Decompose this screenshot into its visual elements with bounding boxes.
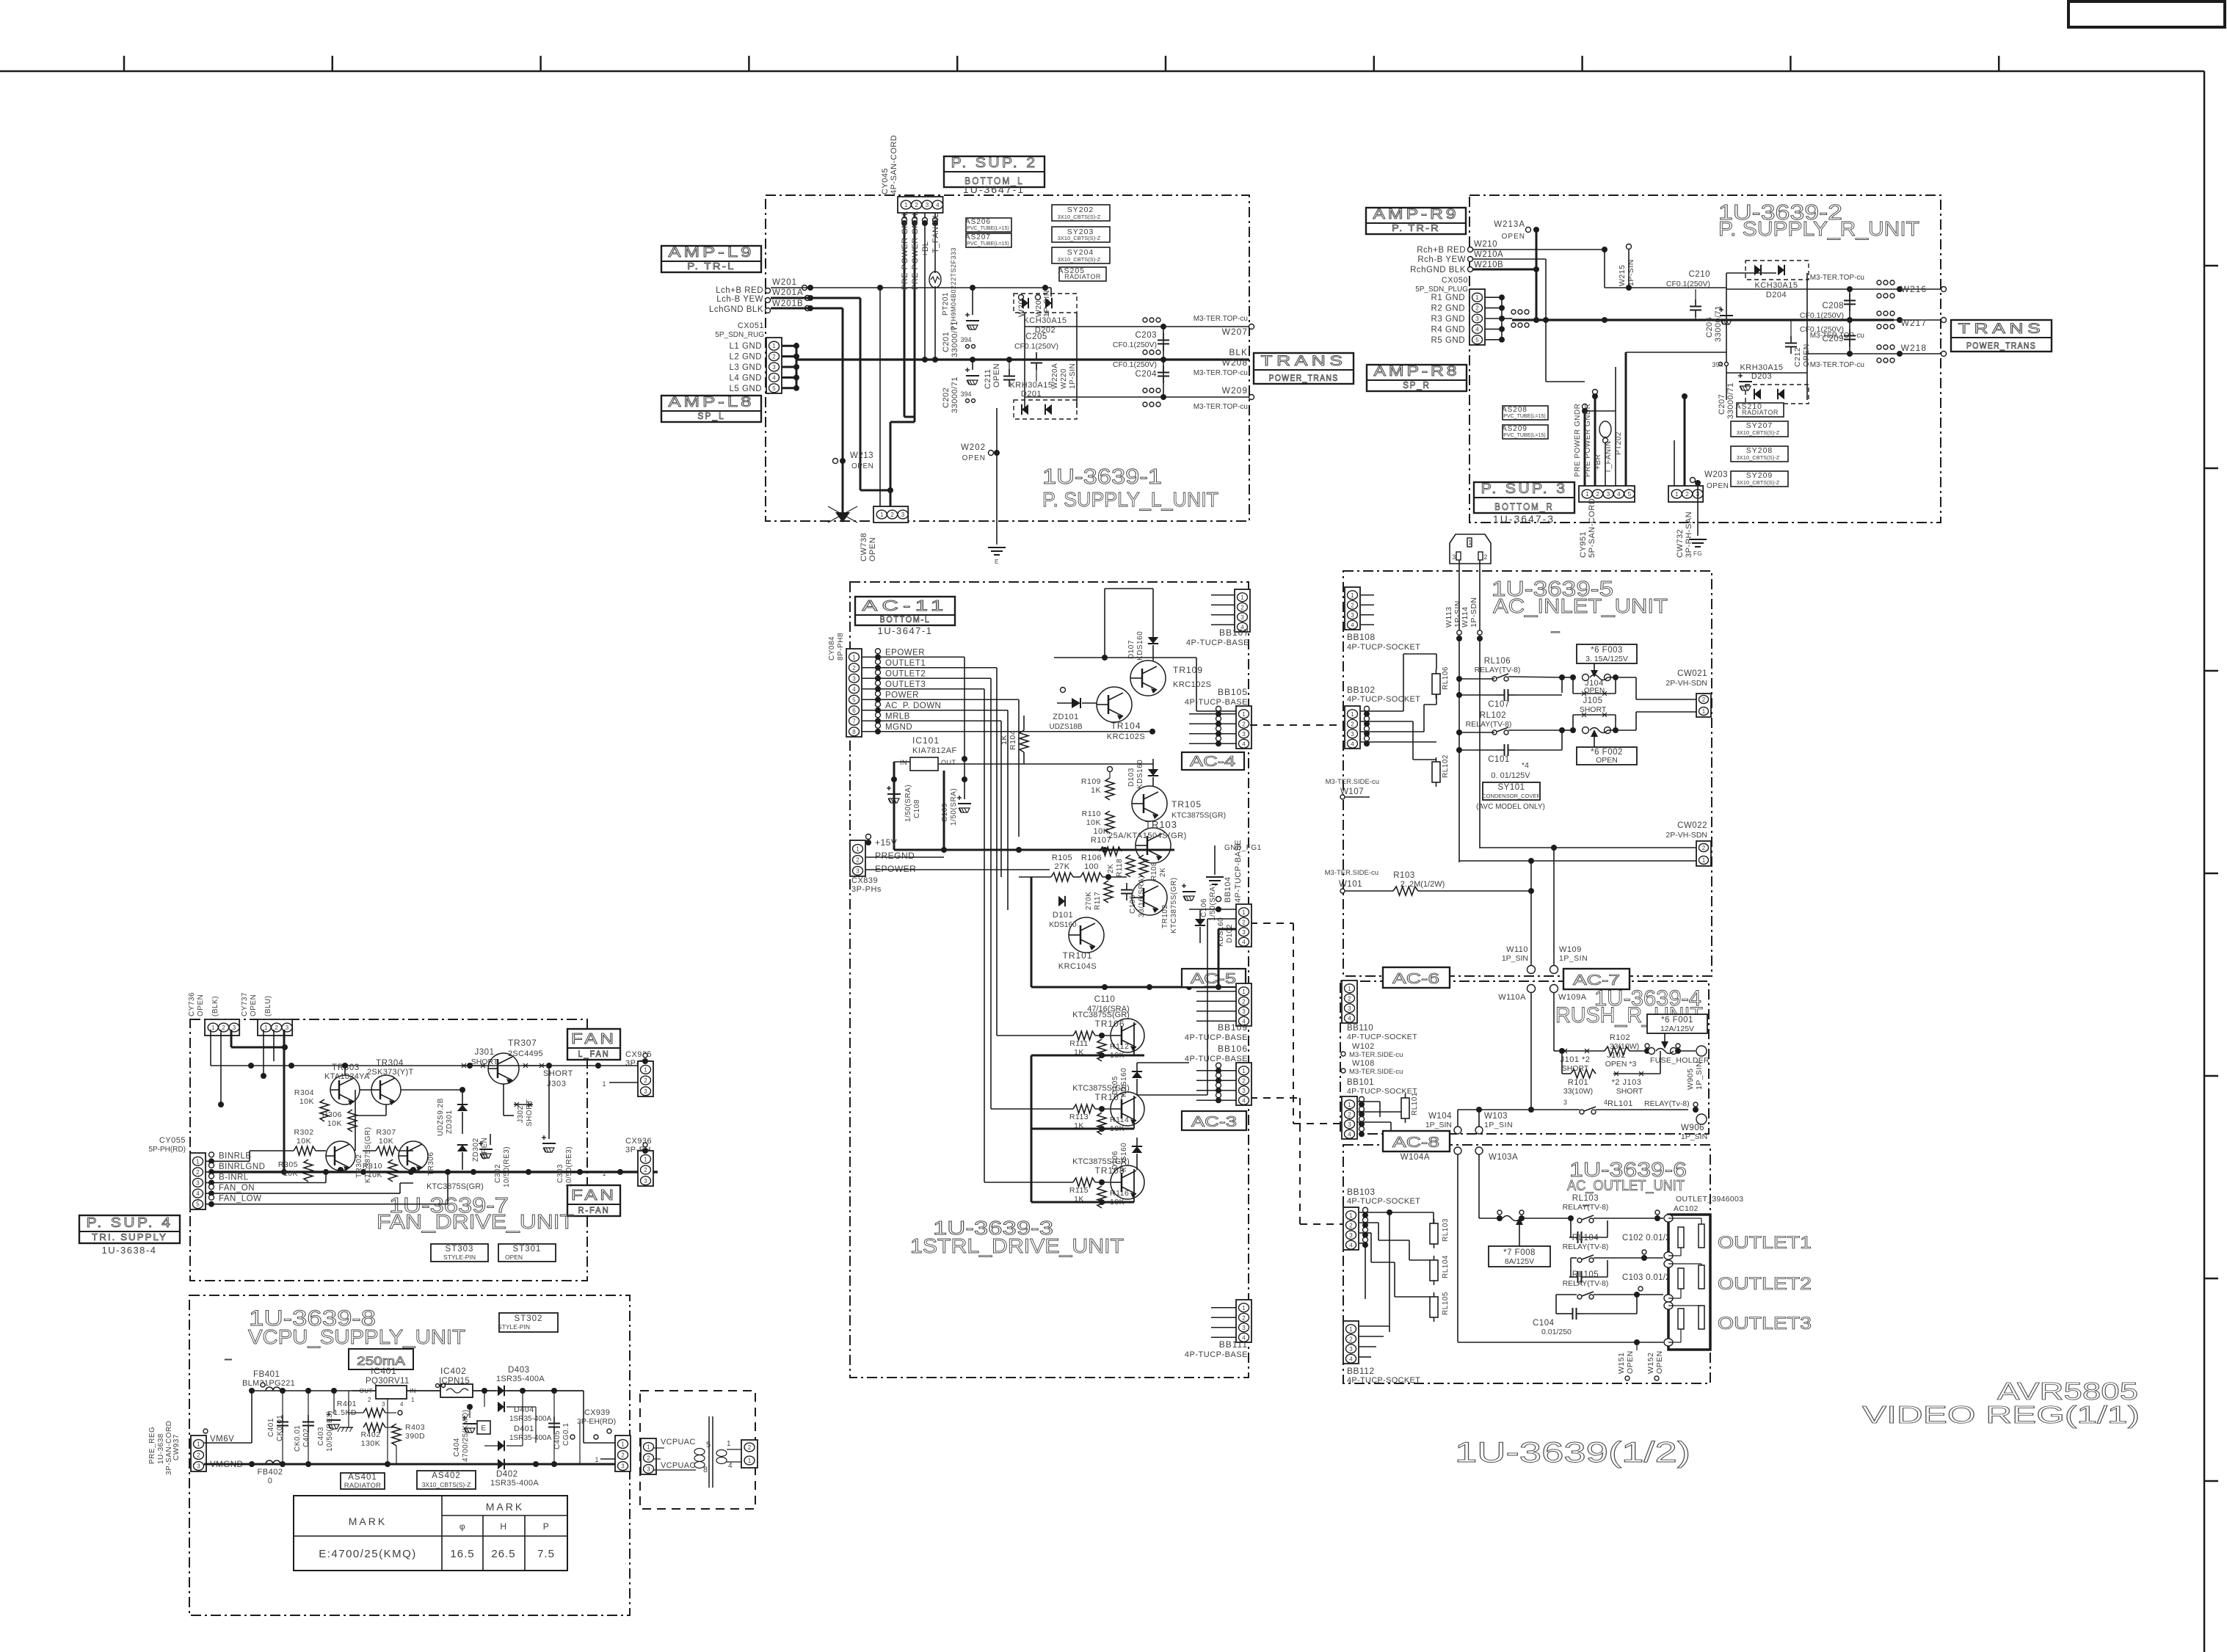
svg-text:3: 3 <box>1351 612 1354 619</box>
svg-text:4: 4 <box>1348 1131 1351 1138</box>
svg-text:RL101: RL101 <box>1607 1099 1633 1108</box>
svg-text:R110: R110 <box>1082 809 1101 818</box>
svg-text:D403: D403 <box>508 1366 530 1375</box>
svg-text:L5 GND: L5 GND <box>729 385 762 393</box>
svg-text:CF0.1(250V): CF0.1(250V) <box>1666 280 1710 288</box>
svg-text:C207: C207 <box>1718 394 1726 415</box>
svg-text:B-INRL: B-INRL <box>219 1173 249 1182</box>
svg-text:33000/71: 33000/71 <box>951 376 959 413</box>
svg-text:W103: W103 <box>1484 1112 1508 1121</box>
svg-text:AC-11: AC-11 <box>862 598 948 614</box>
svg-text:BB112: BB112 <box>1347 1366 1375 1376</box>
svg-text:OPEN: OPEN <box>250 994 258 1016</box>
svg-text:OPEN: OPEN <box>1626 1350 1635 1374</box>
svg-text:27K: 27K <box>1054 862 1069 871</box>
svg-text:C206: C206 <box>1705 317 1714 338</box>
svg-text:0: 0 <box>268 1477 273 1485</box>
svg-text:1: 1 <box>644 1066 647 1073</box>
svg-text:W215: W215 <box>1618 265 1627 286</box>
svg-text:FAN_DRIVE_UNIT: FAN_DRIVE_UNIT <box>377 1210 574 1233</box>
svg-text:AMP-R8: AMP-R8 <box>1374 364 1460 379</box>
svg-text:BINRLB: BINRLB <box>219 1151 252 1160</box>
svg-text:R115: R115 <box>1069 1186 1089 1195</box>
svg-text:POWER_TRANS: POWER_TRANS <box>1966 341 2036 351</box>
svg-text:C205: C205 <box>1025 332 1047 341</box>
svg-text:PT202: PT202 <box>1615 432 1623 455</box>
svg-text:W104: W104 <box>1428 1112 1452 1121</box>
svg-text:KRC102S: KRC102S <box>1173 680 1211 689</box>
svg-text:1: 1 <box>904 202 908 208</box>
svg-text:3: 3 <box>1607 491 1610 498</box>
svg-text:2. 2M(1/2W): 2. 2M(1/2W) <box>1400 880 1445 889</box>
svg-text:C302: C302 <box>494 1164 502 1183</box>
svg-text:OPEN: OPEN <box>962 454 986 462</box>
svg-text:CK0.01: CK0.01 <box>276 1415 284 1441</box>
svg-text:BB109: BB109 <box>1218 1022 1248 1033</box>
svg-text:3X10_CBTS(S)-Z: 3X10_CBTS(S)-Z <box>1058 256 1101 263</box>
svg-text:1: 1 <box>1349 1212 1353 1219</box>
svg-text:W201A: W201A <box>772 288 804 297</box>
svg-text:AS209: AS209 <box>1502 425 1527 433</box>
svg-text:3: 3 <box>1242 1088 1246 1094</box>
svg-text:W207: W207 <box>1222 327 1248 337</box>
svg-text:R305: R305 <box>278 1160 298 1169</box>
svg-text:3: 3 <box>647 1466 650 1473</box>
svg-text:1: 1 <box>264 1025 268 1031</box>
svg-text:2K: 2K <box>1107 864 1115 873</box>
svg-text:4P-TUCP-SOCKET: 4P-TUCP-SOCKET <box>1347 1376 1420 1385</box>
svg-text:CY737: CY737 <box>241 992 249 1016</box>
svg-text:BB110: BB110 <box>1347 1024 1373 1033</box>
svg-text:W208: W208 <box>1222 357 1248 368</box>
svg-text:5P-SAN-CORD: 5P-SAN-CORD <box>1588 498 1596 558</box>
svg-text:394: 394 <box>960 390 971 398</box>
svg-text:W209: W209 <box>1222 385 1248 396</box>
svg-text:KRC104S: KRC104S <box>1058 962 1097 971</box>
svg-text:RL105: RL105 <box>1442 1292 1450 1315</box>
svg-text:10K: 10K <box>297 1137 311 1146</box>
svg-text:C104: C104 <box>1533 1319 1555 1328</box>
svg-text:1: 1 <box>772 343 776 349</box>
svg-text:PVC_TUBE(L=15): PVC_TUBE(L=15) <box>967 241 1009 247</box>
svg-text:1: 1 <box>211 1025 215 1031</box>
svg-text:M3-TER.TOP-cu: M3-TER.TOP-cu <box>1810 274 1864 282</box>
svg-text:2: 2 <box>772 354 776 360</box>
svg-text:1P_SIN: 1P_SIN <box>1695 1061 1704 1090</box>
svg-text:1: 1 <box>602 1170 606 1177</box>
svg-text:W101: W101 <box>1339 880 1362 889</box>
svg-text:1/50(SRA): 1/50(SRA) <box>950 788 958 826</box>
svg-text:M3-TER.SIDE-cu: M3-TER.SIDE-cu <box>1349 1068 1403 1076</box>
svg-text:W210A: W210A <box>1474 250 1503 259</box>
svg-text:1: 1 <box>880 512 884 518</box>
svg-text:BB107: BB107 <box>1219 627 1249 638</box>
svg-text:(BLK): (BLK) <box>211 996 219 1016</box>
svg-text:AMP-L9: AMP-L9 <box>669 245 755 261</box>
svg-text:1: 1 <box>1702 857 1706 864</box>
svg-text:4P-TUCP-BASE: 4P-TUCP-BASE <box>1185 1350 1248 1359</box>
svg-text:2K: 2K <box>1159 867 1167 877</box>
svg-text:5: 5 <box>852 696 856 703</box>
svg-text:φ: φ <box>459 1521 465 1532</box>
svg-text:AC-8: AC-8 <box>1392 1135 1439 1151</box>
svg-text:R1 GND: R1 GND <box>1431 294 1465 302</box>
svg-text:W151: W151 <box>1617 1353 1626 1374</box>
svg-text:1: 1 <box>602 1080 606 1088</box>
svg-text:1: 1 <box>1240 594 1244 601</box>
svg-text:33000/71: 33000/71 <box>951 321 959 357</box>
svg-text:Lch-B YEW: Lch-B YEW <box>716 295 763 304</box>
svg-text:W203: W203 <box>1704 470 1728 479</box>
svg-text:2: 2 <box>222 1025 225 1031</box>
svg-text:CW738: CW738 <box>860 533 868 561</box>
svg-text:L3 GND: L3 GND <box>729 363 762 372</box>
svg-text:KIA7812AF: KIA7812AF <box>912 746 957 755</box>
svg-text:ST302: ST302 <box>515 1314 543 1323</box>
svg-text:3X10_CBTS(S)-Z: 3X10_CBTS(S)-Z <box>1058 235 1101 241</box>
svg-text:W202: W202 <box>961 443 986 452</box>
svg-text:UDZS18B: UDZS18B <box>1049 723 1082 731</box>
svg-text:3: 3 <box>1242 731 1246 738</box>
svg-text:W104A: W104A <box>1400 1153 1430 1162</box>
svg-text:R401: R401 <box>337 1400 357 1408</box>
svg-text:CG0.1: CG0.1 <box>562 1423 570 1446</box>
svg-text:CY084: CY084 <box>828 636 836 661</box>
svg-text:2P-VH-SDN: 2P-VH-SDN <box>1665 679 1707 688</box>
svg-text:1: 1 <box>1242 1068 1246 1074</box>
svg-text:4: 4 <box>936 202 940 208</box>
svg-text:E: E <box>995 558 999 565</box>
svg-text:16.5: 16.5 <box>450 1548 474 1560</box>
svg-text:OPEN: OPEN <box>1584 687 1605 695</box>
svg-text:AS206: AS206 <box>965 218 991 226</box>
svg-text:CF0.1(250V): CF0.1(250V) <box>1113 341 1157 349</box>
svg-text:FB402: FB402 <box>258 1468 283 1477</box>
svg-text:RchGND BLK: RchGND BLK <box>1410 266 1466 274</box>
svg-text:2: 2 <box>197 1452 200 1459</box>
svg-text:2: 2 <box>1349 1222 1353 1229</box>
svg-text:PRE POWER GNDR: PRE POWER GNDR <box>1574 404 1582 477</box>
svg-text:2: 2 <box>368 1397 371 1403</box>
svg-text:R302: R302 <box>294 1128 313 1137</box>
svg-text:1P-SIN: 1P-SIN <box>1069 363 1077 389</box>
svg-text:C405: C405 <box>553 1430 562 1449</box>
svg-text:AMP-R9: AMP-R9 <box>1373 207 1459 222</box>
svg-text:4: 4 <box>1349 1242 1353 1248</box>
svg-text:1: 1 <box>1349 1326 1353 1333</box>
svg-text:4: 4 <box>1348 1015 1351 1022</box>
svg-text:3: 3 <box>901 512 905 518</box>
svg-text:D103: D103 <box>1127 768 1136 787</box>
svg-text:W213: W213 <box>850 451 873 460</box>
svg-text:D105: D105 <box>1111 1076 1119 1095</box>
svg-text:CY055: CY055 <box>159 1136 186 1145</box>
svg-text:D402: D402 <box>496 1470 518 1479</box>
svg-text:TR101: TR101 <box>1062 950 1092 961</box>
svg-text:*7 F008: *7 F008 <box>1503 1248 1536 1257</box>
svg-text:1: 1 <box>1585 491 1589 498</box>
svg-text:BB102: BB102 <box>1347 685 1376 695</box>
svg-text:IN: IN <box>900 759 907 766</box>
svg-text:1: 1 <box>856 846 860 853</box>
svg-text:BB106: BB106 <box>1218 1044 1248 1054</box>
svg-text:R306: R306 <box>322 1110 342 1119</box>
svg-text:1/50(SRA): 1/50(SRA) <box>904 785 912 822</box>
svg-text:2: 2 <box>1685 491 1689 498</box>
svg-text:OUTLET3: OUTLET3 <box>1718 1314 1812 1333</box>
svg-text:M3-TER.SIDE-cu: M3-TER.SIDE-cu <box>1325 869 1378 877</box>
svg-text:AS208: AS208 <box>1502 406 1527 414</box>
svg-text:3. 15A/125V: 3. 15A/125V <box>1585 655 1628 663</box>
svg-text:CX939: CX939 <box>584 1408 610 1417</box>
svg-text:RL105: RL105 <box>1572 1270 1599 1279</box>
svg-text:AS401: AS401 <box>348 1473 377 1482</box>
svg-text:J102: J102 <box>1607 1051 1626 1060</box>
svg-text:1: 1 <box>621 1441 625 1448</box>
svg-text:BB101: BB101 <box>1347 1078 1374 1087</box>
svg-text:4P-TUCP-SOCKET: 4P-TUCP-SOCKET <box>1347 1087 1417 1096</box>
svg-text:LchGND BLK: LchGND BLK <box>709 305 763 314</box>
svg-text:P. SUPPLY_R_UNIT: P. SUPPLY_R_UNIT <box>1718 217 1919 240</box>
svg-text:W220A: W220A <box>1051 363 1059 389</box>
svg-text:4: 4 <box>196 1190 200 1197</box>
svg-text:W201: W201 <box>772 278 797 287</box>
svg-text:OUTLET1: OUTLET1 <box>1718 1233 1812 1253</box>
svg-text:KTC3875S(GR): KTC3875S(GR) <box>1171 811 1226 820</box>
svg-text:3: 3 <box>1349 1346 1353 1353</box>
svg-text:CK0.01: CK0.01 <box>294 1425 302 1452</box>
svg-text:W201B: W201B <box>772 299 804 308</box>
svg-text:M3-TER.TOP-cu: M3-TER.TOP-cu <box>1194 315 1248 323</box>
svg-text:4: 4 <box>1351 622 1354 628</box>
svg-text:W110A: W110A <box>1498 993 1526 1002</box>
svg-text:1: 1 <box>1242 1305 1246 1311</box>
svg-text:W213A: W213A <box>1494 220 1525 229</box>
svg-text:BB108: BB108 <box>1347 632 1376 642</box>
svg-text:L4 GND: L4 GND <box>729 374 762 382</box>
svg-text:33(10W): 33(10W) <box>1610 1042 1639 1051</box>
svg-text:AC_OUTLET_UNIT: AC_OUTLET_UNIT <box>1567 1178 1685 1194</box>
svg-text:2: 2 <box>1702 845 1706 851</box>
svg-text:8: 8 <box>852 729 856 735</box>
svg-text:10K: 10K <box>379 1137 393 1146</box>
svg-text:KTC3875S(GR): KTC3875S(GR) <box>426 1182 484 1191</box>
svg-text:3X10_CBTS(S)-Z: 3X10_CBTS(S)-Z <box>1737 454 1780 461</box>
svg-text:OPEN: OPEN <box>197 994 205 1016</box>
svg-text:33000/71: 33000/71 <box>1726 382 1735 419</box>
svg-text:L1 GND: L1 GND <box>729 342 762 351</box>
svg-text:TR307: TR307 <box>508 1038 537 1048</box>
svg-text:3: 3 <box>772 364 776 371</box>
svg-text:1K: 1K <box>1091 786 1101 795</box>
svg-text:FAN_LOW: FAN_LOW <box>219 1195 261 1204</box>
svg-text:+BL: +BL <box>921 241 930 257</box>
svg-text:1U-3638: 1U-3638 <box>157 1433 165 1464</box>
svg-text:E:4700/25(KMQ): E:4700/25(KMQ) <box>319 1548 417 1560</box>
svg-text:C210: C210 <box>1689 270 1711 279</box>
svg-text:C101: C101 <box>1488 755 1510 764</box>
svg-text:C106: C106 <box>1200 898 1208 917</box>
svg-text:2: 2 <box>1475 305 1479 312</box>
svg-text:2: 2 <box>1351 721 1354 727</box>
svg-text:4: 4 <box>1349 1356 1353 1362</box>
svg-text:J101 *2: J101 *2 <box>1561 1055 1591 1064</box>
svg-text:26.5: 26.5 <box>491 1548 515 1560</box>
svg-text:KRH30A15: KRH30A15 <box>1009 381 1053 390</box>
svg-text:RELAY(Tv-8): RELAY(Tv-8) <box>1644 1099 1690 1108</box>
svg-text:1: 1 <box>595 1456 599 1463</box>
svg-text:1: 1 <box>1348 986 1351 992</box>
svg-text:CY951: CY951 <box>1579 531 1588 558</box>
svg-text:VCPUAC: VCPUAC <box>661 1461 696 1470</box>
svg-text:RELAY(TV-8): RELAY(TV-8) <box>1563 1203 1609 1212</box>
svg-text:10K: 10K <box>327 1119 342 1128</box>
svg-text:3X10_CBTS(S)-Z: 3X10_CBTS(S)-Z <box>422 1481 471 1488</box>
svg-text:2P-VH-SDN: 2P-VH-SDN <box>1665 831 1707 840</box>
svg-text:2: 2 <box>275 1025 278 1031</box>
svg-text:4: 4 <box>1475 326 1479 332</box>
svg-text:TR102: TR102 <box>1161 904 1169 928</box>
svg-text:KDS160: KDS160 <box>1049 921 1077 929</box>
svg-text:2: 2 <box>852 665 856 672</box>
svg-text:3X10_CBTS(S)-Z: 3X10_CBTS(S)-Z <box>1737 479 1780 486</box>
svg-text:H: H <box>500 1521 506 1532</box>
svg-text:1U-3647-1: 1U-3647-1 <box>878 625 933 636</box>
svg-text:RADIATOR: RADIATOR <box>1742 409 1779 416</box>
svg-text:1U-3639-1: 1U-3639-1 <box>1042 465 1162 489</box>
svg-text:T_FANINL: T_FANINL <box>931 213 940 253</box>
svg-text:R103: R103 <box>1393 871 1415 880</box>
svg-text:4P-SAN-CORD: 4P-SAN-CORD <box>890 135 898 194</box>
svg-text:3P-PH-SAN: 3P-PH-SAN <box>1685 512 1693 558</box>
svg-text:EPOWER: EPOWER <box>885 648 925 657</box>
svg-text:D107: D107 <box>1127 640 1136 659</box>
svg-text:R117: R117 <box>1094 892 1102 910</box>
svg-text:2: 2 <box>644 1167 647 1173</box>
svg-text:3: 3 <box>1348 1005 1351 1012</box>
svg-text:P. SUP. 3: P. SUP. 3 <box>1481 481 1568 497</box>
svg-text:CW022: CW022 <box>1677 821 1707 830</box>
svg-text:R310: R310 <box>363 1162 382 1171</box>
svg-text:3: 3 <box>1563 1099 1568 1106</box>
svg-text:SHORT: SHORT <box>471 1058 498 1066</box>
svg-text:2: 2 <box>1702 696 1706 703</box>
svg-text:RADIATOR: RADIATOR <box>1064 273 1101 280</box>
svg-text:TR304: TR304 <box>376 1059 404 1068</box>
svg-text:M3-TER.SIDE-cu: M3-TER.SIDE-cu <box>1349 1051 1403 1059</box>
svg-text:0.01/250: 0.01/250 <box>1541 1328 1572 1336</box>
svg-text:KDS160: KDS160 <box>1136 631 1144 661</box>
svg-text:100: 100 <box>1084 862 1099 871</box>
svg-text:C108: C108 <box>913 799 921 818</box>
svg-text:1STRL_DRIVE_UNIT: 1STRL_DRIVE_UNIT <box>910 1234 1124 1257</box>
svg-text:M3-TER.TOP-cu: M3-TER.TOP-cu <box>1194 369 1248 377</box>
svg-text:1SR35-400A: 1SR35-400A <box>509 1434 552 1442</box>
svg-text:UDZS9.2B: UDZS9.2B <box>437 1098 445 1136</box>
svg-text:RL101: RL101 <box>1411 1092 1419 1116</box>
svg-text:PTH9M04B0222TS2F333: PTH9M04B0222TS2F333 <box>950 247 957 330</box>
svg-text:R304: R304 <box>294 1088 314 1097</box>
svg-text:R111: R111 <box>1069 1039 1089 1048</box>
svg-text:C202: C202 <box>942 387 951 408</box>
svg-text:POWER: POWER <box>885 691 919 699</box>
svg-text:AS207: AS207 <box>965 233 991 241</box>
svg-text:J105: J105 <box>1583 696 1603 705</box>
svg-text:1P-SIN: 1P-SIN <box>1627 259 1635 286</box>
svg-text:OUTLET3: OUTLET3 <box>885 680 926 689</box>
svg-text:KRH30A15: KRH30A15 <box>1740 363 1783 372</box>
svg-text:2: 2 <box>1242 1077 1246 1084</box>
svg-text:2: 2 <box>1242 998 1246 1005</box>
svg-text:1SR35-400A: 1SR35-400A <box>509 1415 552 1423</box>
svg-text:R105: R105 <box>1052 854 1072 862</box>
svg-text:TR105: TR105 <box>1171 799 1202 809</box>
svg-text:2: 2 <box>1240 604 1244 611</box>
svg-text:1P_SIN: 1P_SIN <box>1502 954 1528 963</box>
svg-text:1U-3647-1: 1U-3647-1 <box>963 183 1025 195</box>
svg-text:2: 2 <box>196 1169 200 1176</box>
svg-text:VCPUAC: VCPUAC <box>661 1438 696 1447</box>
svg-text:4P-TUCP-SOCKET: 4P-TUCP-SOCKET <box>1347 1033 1417 1041</box>
svg-text:(AVC MODEL ONLY): (AVC MODEL ONLY) <box>1476 803 1545 811</box>
svg-text:OUTLET_3946003: OUTLET_3946003 <box>1676 1195 1743 1204</box>
svg-text:4: 4 <box>1242 939 1246 945</box>
svg-text:1P_SIN: 1P_SIN <box>1681 1132 1707 1141</box>
svg-text:AMP-L8: AMP-L8 <box>669 395 755 410</box>
svg-text:W108: W108 <box>1352 1059 1375 1068</box>
svg-text:R402: R402 <box>360 1430 380 1439</box>
svg-text:PREGND: PREGND <box>875 851 915 861</box>
svg-text:MGND: MGND <box>885 723 912 732</box>
svg-text:OPEN: OPEN <box>992 363 1001 387</box>
svg-text:3P-SAN-CORD: 3P-SAN-CORD <box>165 1421 173 1475</box>
svg-text:PRE POWER GNDR: PRE POWER GNDR <box>1584 404 1592 477</box>
svg-text:3: 3 <box>197 1463 200 1470</box>
svg-text:KTA1024YA: KTA1024YA <box>324 1072 370 1081</box>
svg-text:PVC_TUBE(L=15): PVC_TUBE(L=15) <box>1503 433 1545 438</box>
svg-text:AC_INLET_UNIT: AC_INLET_UNIT <box>1493 594 1668 617</box>
svg-text:FG: FG <box>1693 550 1702 557</box>
svg-text:P. SUP. 2: P. SUP. 2 <box>951 156 1038 171</box>
svg-text:ZD301: ZD301 <box>446 1110 454 1134</box>
svg-text:R118: R118 <box>1116 859 1124 877</box>
svg-text:4: 4 <box>400 1401 404 1408</box>
svg-text:2: 2 <box>1242 721 1246 727</box>
svg-text:RL102: RL102 <box>1480 711 1506 720</box>
svg-text:3: 3 <box>1242 1008 1246 1015</box>
svg-text:CY736: CY736 <box>188 992 196 1016</box>
svg-text:4P-TUCP-BASE: 4P-TUCP-BASE <box>1185 1033 1248 1042</box>
svg-text:3: 3 <box>852 675 856 682</box>
svg-text:R403: R403 <box>405 1423 425 1432</box>
svg-text:4P-TUCP-SOCKET: 4P-TUCP-SOCKET <box>1347 643 1420 652</box>
svg-text:3P-EH(RD): 3P-EH(RD) <box>577 1417 616 1426</box>
svg-text:W152: W152 <box>1646 1353 1655 1374</box>
svg-text:SHORT: SHORT <box>526 1099 534 1127</box>
svg-text:6: 6 <box>852 707 856 714</box>
svg-text:AC_P. DOWN: AC_P. DOWN <box>885 702 941 710</box>
svg-text:5: 5 <box>772 385 776 392</box>
svg-text:2: 2 <box>621 1452 625 1459</box>
svg-text:OPEN: OPEN <box>851 462 873 470</box>
svg-text:D401: D401 <box>514 1424 534 1433</box>
svg-text:RL104: RL104 <box>1572 1234 1599 1242</box>
svg-text:OUTLET2: OUTLET2 <box>885 669 926 678</box>
svg-text:KDS160: KDS160 <box>1120 1068 1128 1097</box>
svg-text:C107: C107 <box>1488 700 1510 709</box>
svg-text:1: 1 <box>647 1444 650 1451</box>
svg-text:TR109: TR109 <box>1173 665 1203 675</box>
